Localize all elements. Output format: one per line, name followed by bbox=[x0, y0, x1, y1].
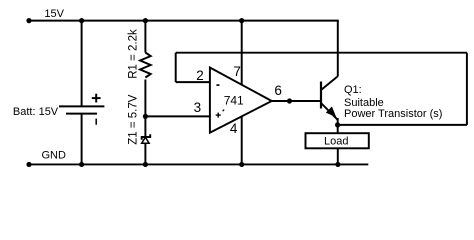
wire collector riser bbox=[337, 21, 339, 77]
node dot load bottom bbox=[335, 162, 340, 167]
svg-text:Suitable: Suitable bbox=[344, 97, 384, 109]
svg-text:Z1 = 5.7V: Z1 = 5.7V bbox=[127, 94, 139, 145]
wire pin4 drop bbox=[241, 116, 243, 165]
svg-text:741: 741 bbox=[224, 93, 244, 107]
svg-text:7: 7 bbox=[233, 64, 241, 79]
wire load bottom bbox=[337, 148, 339, 164]
node dot bottom-left terminal bbox=[26, 162, 31, 167]
stray tick near plus bbox=[223, 110, 225, 112]
load box bbox=[306, 133, 369, 148]
transistor Q1 collector diagonal bbox=[321, 76, 338, 90]
wire zener bottom bbox=[144, 143, 146, 164]
svg-text:GND: GND bbox=[42, 150, 67, 162]
transistor Q1 base bar bbox=[320, 82, 322, 109]
wire R1 top bbox=[144, 21, 146, 53]
transistor Q1 emitter arrowhead bbox=[326, 107, 337, 118]
resistor R1 zigzag bbox=[140, 53, 151, 78]
node dot battery top bbox=[79, 18, 84, 23]
zener Z1 anode triangle bbox=[142, 137, 149, 143]
svg-text:Power Transistor (s): Power Transistor (s) bbox=[344, 108, 442, 120]
wire pin2 stub bbox=[176, 81, 210, 83]
zener Z1 cathode bar with wings bbox=[142, 134, 151, 140]
svg-text:Load: Load bbox=[324, 136, 348, 148]
node dot zener/pin3 bbox=[143, 114, 148, 119]
battery minus mark bbox=[95, 119, 97, 125]
node dot emitter junction bbox=[335, 122, 340, 127]
wire feedback top bbox=[176, 52, 467, 54]
wire top rail 15V bbox=[29, 20, 339, 22]
wire output pin6 bbox=[272, 100, 321, 102]
svg-text:4: 4 bbox=[230, 121, 238, 136]
wire feedback bottom bbox=[338, 124, 467, 126]
wire feedback right drop bbox=[466, 53, 468, 125]
transistor Q1 emitter diagonal bbox=[321, 103, 338, 120]
node dot pin7 supply bbox=[239, 18, 244, 23]
wire battery bottom bbox=[81, 114, 83, 165]
wire pin7 riser bbox=[241, 21, 243, 86]
op-amp U1 741 triangle bbox=[210, 68, 272, 133]
battery plus mark bbox=[92, 97, 101, 99]
wire R1 bottom to zener bbox=[144, 80, 146, 138]
wire bottom rail GND bbox=[29, 163, 368, 165]
svg-text:6: 6 bbox=[274, 83, 282, 98]
node dot battery bottom bbox=[79, 162, 84, 167]
wire pin3 input bbox=[145, 115, 210, 117]
node dot zener bottom bbox=[143, 162, 148, 167]
svg-text:Batt: 15V: Batt: 15V bbox=[13, 106, 59, 118]
node dot R1 top bbox=[143, 18, 148, 23]
svg-text:3: 3 bbox=[194, 100, 202, 115]
wire feedback riser bbox=[175, 53, 177, 82]
op-amp non-inverting plus mark bbox=[216, 114, 221, 116]
wire battery top bbox=[81, 21, 83, 107]
svg-text:2: 2 bbox=[196, 68, 204, 83]
battery plate positive bbox=[59, 105, 104, 107]
svg-text:Q1:: Q1: bbox=[344, 84, 362, 96]
node dot pin4 ground bbox=[239, 162, 244, 167]
node dot output wire bbox=[287, 98, 292, 103]
op-amp inverting minus mark bbox=[216, 84, 219, 86]
node dot top-left terminal bbox=[26, 18, 31, 23]
svg-text:R1 = 2.2k: R1 = 2.2k bbox=[127, 29, 139, 79]
wire emitter drop bbox=[337, 118, 339, 133]
svg-text:15V: 15V bbox=[44, 8, 64, 20]
battery plate negative bbox=[66, 113, 97, 115]
